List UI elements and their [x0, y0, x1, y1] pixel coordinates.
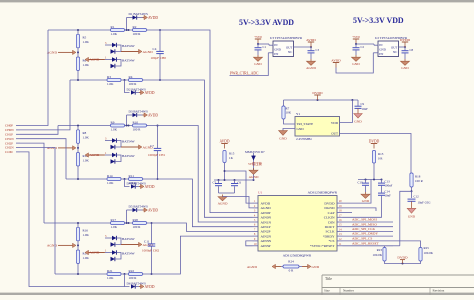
svg-text:R13: R13: [378, 152, 384, 156]
svg-text:R21: R21: [107, 269, 113, 273]
svg-text:Size: Size: [324, 289, 330, 293]
svg-text:AGND: AGND: [47, 51, 58, 55]
svg-text:AVDD: AVDD: [148, 16, 158, 20]
svg-text:100 R: 100 R: [133, 225, 142, 229]
svg-text:ADC_SPI_RESET: ADC_SPI_RESET: [352, 241, 380, 245]
svg-text:C10: C10: [358, 180, 364, 184]
svg-text:GND: GND: [401, 66, 409, 70]
svg-text:100pF CH0: 100pF CH0: [151, 56, 167, 60]
svg-text:C2: C2: [361, 45, 365, 49]
svg-text:1.0K: 1.0K: [107, 82, 114, 86]
svg-text:AGND: AGND: [47, 146, 58, 150]
svg-text:D1 BAT54WS: D1 BAT54WS: [129, 12, 148, 16]
svg-text:CH2P: CH2P: [5, 141, 13, 145]
svg-text:OUT: OUT: [331, 132, 338, 136]
svg-text:Revision: Revision: [433, 289, 445, 293]
svg-text:ADC_SPI_MISO: ADC_SPI_MISO: [352, 222, 377, 226]
svg-text:AGND: AGND: [90, 58, 100, 62]
svg-text:100nF: 100nF: [385, 183, 393, 187]
svg-text:ADC_SPI_MOSI: ADC_SPI_MOSI: [352, 218, 378, 222]
svg-text:0 R: 0 R: [289, 269, 294, 273]
svg-text:DVDD: DVDD: [397, 256, 408, 260]
svg-text:1.0K: 1.0K: [107, 181, 114, 185]
svg-text:1000pF CH2: 1000pF CH2: [142, 248, 159, 252]
svg-text:GND: GND: [297, 127, 305, 131]
svg-text:R8: R8: [83, 131, 87, 135]
svg-text:AIN1N: AIN1N: [261, 220, 272, 224]
svg-text:1.0K: 1.0K: [83, 135, 90, 139]
svg-text:GND: GND: [352, 62, 360, 66]
svg-text:DIN: DIN: [328, 220, 335, 224]
svg-text:C8: C8: [410, 48, 414, 52]
svg-text:ADC_SPI_CS: ADC_SPI_CS: [352, 237, 372, 241]
svg-text:D3 BAT54WS: D3 BAT54WS: [129, 109, 148, 113]
svg-text:AVDD: AVDD: [306, 38, 316, 42]
svg-text:+5V0: +5V0: [352, 35, 360, 39]
svg-text:AVDD: AVDD: [145, 91, 155, 95]
svg-text:GND: GND: [362, 199, 370, 203]
svg-text:CH1N: CH1N: [5, 137, 14, 141]
svg-text:C5: C5: [213, 180, 217, 184]
svg-text:AVDD: AVDD: [331, 59, 341, 63]
svg-text:SCLK: SCLK: [326, 230, 335, 234]
svg-text:AGND: AGND: [218, 202, 228, 206]
svg-text:R16: R16: [83, 228, 89, 232]
svg-text:*SYNC/*RESET: *SYNC/*RESET: [310, 244, 335, 248]
svg-text:NC: NC: [393, 50, 397, 54]
svg-text:GND: GND: [254, 62, 262, 66]
svg-text:R14: R14: [107, 174, 113, 178]
svg-text:100 R: 100 R: [415, 179, 424, 183]
svg-text:C12: C12: [414, 194, 420, 198]
svg-text:2.4576MHz: 2.4576MHz: [296, 137, 312, 141]
svg-text:10K: 10K: [286, 111, 292, 115]
svg-text:R2: R2: [133, 25, 137, 29]
svg-text:5V->3.3V VDD: 5V->3.3V VDD: [353, 16, 404, 25]
svg-text:AIN3N: AIN3N: [261, 239, 272, 243]
svg-text:ADC_SPI_DRDY: ADC_SPI_DRDY: [352, 232, 378, 236]
svg-text:AVDD: AVDD: [261, 201, 271, 205]
svg-text:1.0K: 1.0K: [83, 159, 90, 163]
svg-text:1.0K: 1.0K: [83, 40, 90, 44]
svg-text:*DRDY: *DRDY: [323, 234, 335, 238]
svg-text:D2 BAT54WS: D2 BAT54WS: [127, 88, 146, 92]
svg-text:1.0K: 1.0K: [107, 276, 114, 280]
svg-text:R24: R24: [288, 260, 294, 264]
svg-text:ADC_SPI_CLK: ADC_SPI_CLK: [352, 227, 376, 231]
svg-text:10pF C0G: 10pF C0G: [418, 200, 432, 204]
svg-text:1.0K: 1.0K: [111, 225, 118, 229]
svg-text:1K: 1K: [229, 156, 234, 160]
svg-text:AGND: AGND: [47, 244, 58, 248]
svg-text:Title: Title: [325, 277, 332, 281]
svg-text:1.0K: 1.0K: [83, 233, 90, 237]
svg-text:DVDD: DVDD: [400, 38, 411, 42]
svg-text:OUT: OUT: [391, 45, 397, 49]
svg-text:R9: R9: [111, 120, 115, 124]
svg-text:BAT54W: BAT54W: [122, 59, 136, 63]
svg-text:BAT54W: BAT54W: [122, 140, 136, 144]
svg-text:AIN0N: AIN0N: [261, 216, 272, 220]
svg-text:DVDD: DVDD: [312, 91, 323, 95]
svg-text:DVDD: DVDD: [369, 140, 380, 144]
svg-text:R15: R15: [229, 152, 235, 156]
svg-text:U1: U1: [258, 190, 263, 194]
svg-text:AGND: AGND: [261, 206, 272, 210]
svg-text:10nF: 10nF: [385, 193, 392, 197]
svg-text:BAT54W: BAT54W: [122, 44, 136, 48]
svg-text:100.0K: 100.0K: [373, 253, 383, 257]
svg-text:R1: R1: [111, 25, 115, 29]
svg-text:GND: GND: [274, 48, 281, 52]
svg-text:AGND: AGND: [90, 251, 100, 255]
svg-text:R22: R22: [129, 269, 135, 273]
svg-text:AIN2N: AIN2N: [261, 234, 272, 238]
svg-text:C11: C11: [144, 239, 150, 243]
svg-text:GND: GND: [354, 120, 362, 124]
svg-text:R20: R20: [133, 218, 139, 222]
svg-text:Number: Number: [343, 289, 355, 293]
svg-text:AIN0P: AIN0P: [261, 211, 271, 215]
svg-text:C4: C4: [153, 47, 157, 51]
svg-text:CAP: CAP: [328, 211, 335, 215]
svg-text:BAT54W: BAT54W: [122, 154, 136, 158]
svg-text:100 R: 100 R: [129, 276, 138, 280]
svg-text:C9: C9: [361, 102, 365, 106]
svg-text:TRI_STATE: TRI_STATE: [297, 122, 314, 126]
svg-text:DVDD: DVDD: [324, 201, 335, 205]
svg-text:D4 BAT54WS: D4 BAT54WS: [127, 182, 146, 186]
svg-text:1.0K: 1.0K: [111, 32, 118, 36]
svg-text:1.0K: 1.0K: [83, 256, 90, 260]
svg-text:AIN1P: AIN1P: [261, 225, 271, 229]
svg-text:100.0K: 100.0K: [424, 251, 434, 255]
svg-text:R3: R3: [107, 75, 111, 79]
svg-text:5V->3.3V AVDD: 5V->3.3V AVDD: [239, 18, 294, 27]
svg-text:1.0K: 1.0K: [83, 63, 90, 67]
svg-text:AGND: AGND: [90, 153, 100, 157]
svg-text:Y1: Y1: [296, 112, 300, 116]
svg-text:CH0P: CH0P: [5, 124, 13, 128]
svg-text:DGND: DGND: [324, 206, 335, 210]
svg-text:MMSZ5V6 D7: MMSZ5V6 D7: [245, 150, 265, 154]
svg-text:GND: GND: [408, 214, 416, 218]
svg-text:+5V0: +5V0: [254, 35, 262, 39]
svg-text:10nF: 10nF: [362, 107, 369, 111]
svg-text:CLKIN: CLKIN: [324, 216, 335, 220]
svg-text:BAT54W: BAT54W: [122, 252, 136, 256]
svg-text:R25: R25: [424, 246, 430, 250]
svg-text:1.0K: 1.0K: [111, 128, 118, 132]
svg-text:AVDD: AVDD: [145, 285, 155, 289]
svg-text:AVDD: AVDD: [219, 140, 229, 144]
svg-text:C7: C7: [150, 144, 154, 148]
svg-text:*CS: *CS: [328, 239, 334, 243]
svg-text:R10: R10: [133, 120, 139, 124]
svg-text:100 R: 100 R: [129, 82, 138, 86]
svg-text:COM: COM: [5, 150, 13, 154]
svg-text:AIN2P: AIN2P: [261, 230, 271, 234]
svg-text:AGND: AGND: [249, 175, 259, 179]
svg-text:R4: R4: [129, 75, 133, 79]
svg-text:R18: R18: [415, 175, 421, 179]
svg-text:AIN3P: AIN3P: [261, 244, 271, 248]
svg-text:CH0N: CH0N: [5, 128, 14, 132]
svg-text:AGND: AGND: [306, 66, 316, 70]
svg-text:R5: R5: [83, 35, 87, 39]
svg-text:AVDD: AVDD: [145, 185, 155, 189]
svg-text:5V稳压管: 5V稳压管: [248, 161, 263, 166]
svg-text:ADS1256IDBQPWR: ADS1256IDBQPWR: [308, 190, 338, 194]
svg-text:OUT: OUT: [286, 45, 292, 49]
svg-text:NC: NC: [288, 50, 292, 54]
svg-text:CH1P: CH1P: [5, 133, 13, 137]
svg-text:AVDD: AVDD: [148, 208, 158, 212]
svg-text:ADS1256IDBQPWR: ADS1256IDBQPWR: [283, 254, 312, 258]
svg-text:R23: R23: [377, 248, 383, 252]
svg-text:D5 BAT54WS: D5 BAT54WS: [129, 204, 148, 208]
svg-text:AGND: AGND: [247, 265, 258, 269]
svg-text:CH2N: CH2N: [5, 146, 14, 150]
svg-text:PWR_CTRL_ADC: PWR_CTRL_ADC: [230, 71, 259, 75]
svg-text:GND: GND: [279, 137, 287, 141]
svg-text:AVDD: AVDD: [148, 113, 158, 117]
svg-text:R17: R17: [111, 218, 117, 222]
svg-text:100 R: 100 R: [133, 128, 142, 132]
svg-text:R11: R11: [129, 174, 135, 178]
svg-text:C3: C3: [316, 48, 320, 52]
svg-text:100 R: 100 R: [133, 32, 142, 36]
svg-text:1000pF CH1: 1000pF CH1: [148, 153, 165, 157]
svg-text:D6 BAT54WS: D6 BAT54WS: [127, 282, 146, 286]
svg-text:C6: C6: [238, 180, 242, 184]
svg-text:U3 TPS7A2033PDBVR: U3 TPS7A2033PDBVR: [270, 36, 303, 40]
svg-text:BAT54W: BAT54W: [122, 237, 136, 241]
svg-text:GND: GND: [312, 265, 320, 269]
svg-text:DOUT: DOUT: [325, 225, 336, 229]
svg-text:C1: C1: [263, 45, 267, 49]
svg-text:VDD: VDD: [331, 121, 339, 125]
svg-text:GND: GND: [379, 48, 386, 52]
